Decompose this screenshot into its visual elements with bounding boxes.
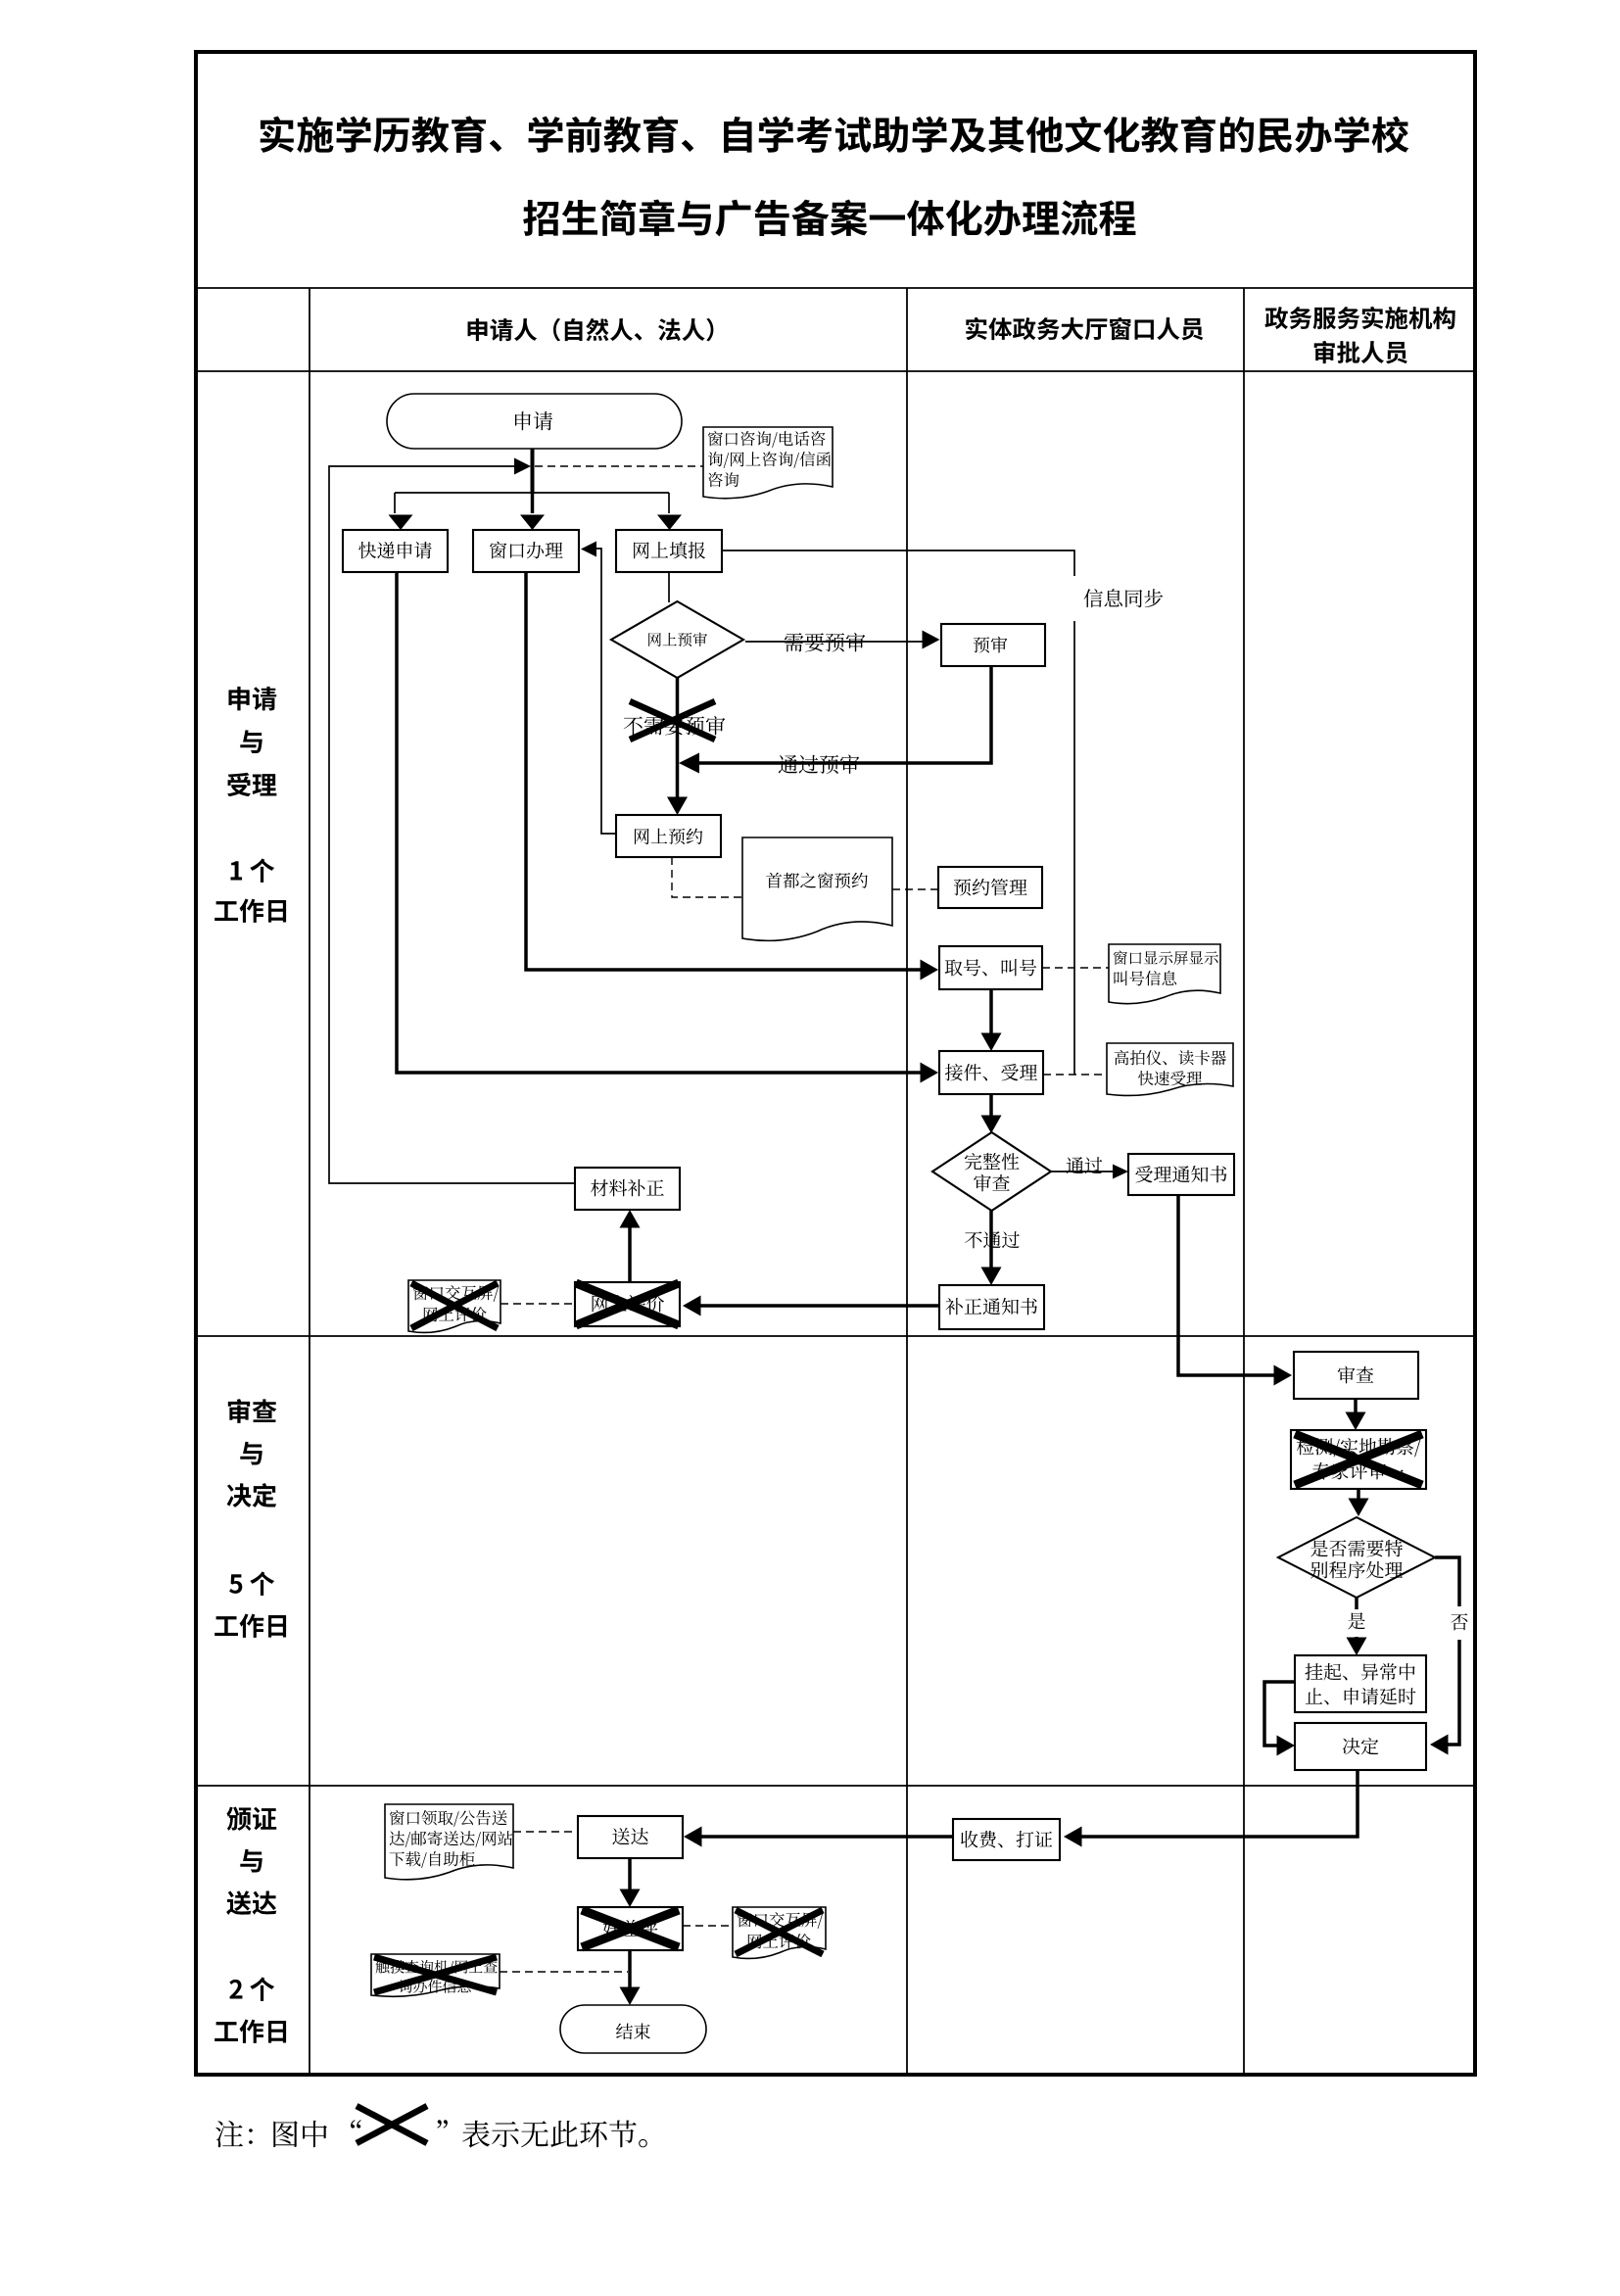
diamond label	[648, 633, 707, 646]
dashed doc to 预约管理	[892, 888, 938, 890]
arrowhead into 收费打证	[1064, 1827, 1082, 1847]
xbox label l1	[1297, 1438, 1421, 1457]
arrowhead into diamond	[981, 1116, 1002, 1134]
arrowhead into 补正通知书	[981, 1268, 1002, 1286]
wire 取号 to 接件	[989, 989, 993, 1035]
wire 收费 to 送达	[698, 1835, 953, 1839]
row1 label 1 个	[230, 858, 274, 882]
row3 label 颁证	[227, 1807, 277, 1831]
label 否	[1451, 1613, 1467, 1630]
row1 label 申请	[228, 687, 276, 710]
arrowhead into 材料补正	[620, 1210, 641, 1228]
arrowhead into 取号叫号	[921, 960, 939, 981]
wire 窗口办理 to 取号叫号	[526, 572, 925, 970]
note text l1	[1114, 951, 1218, 965]
row2 label 审查	[228, 1399, 277, 1423]
note text l2	[424, 1307, 487, 1321]
arrow into 网上填报	[657, 515, 682, 531]
note doc 窗口领取	[385, 1804, 513, 1880]
xbox label l2	[1312, 1462, 1403, 1480]
start stadium 申请	[387, 394, 682, 449]
arrowhead into 审查	[1274, 1365, 1293, 1386]
label 需要预审	[785, 633, 865, 652]
X mark note2	[736, 1910, 823, 1954]
note text l2	[748, 1934, 811, 1948]
header col3 line2	[1314, 341, 1407, 364]
label 不需要预审	[624, 716, 726, 736]
footer quote close	[437, 2120, 448, 2128]
X mark 网上评价	[576, 1283, 679, 1325]
wire 接件 to diamond	[989, 1094, 993, 1118]
wire 挂起 loop	[1264, 1682, 1295, 1746]
arrowhead 通过预审	[679, 753, 699, 774]
box label	[961, 1831, 1052, 1847]
xbox 检测实地勘察	[1291, 1430, 1426, 1489]
diamond 完整性审查	[932, 1132, 1051, 1211]
dashed 触摸查询 note	[500, 1971, 628, 1973]
title line 2	[523, 200, 1135, 237]
box label l2	[1306, 1688, 1416, 1704]
note text l2	[390, 1831, 513, 1847]
header col3 line1	[1264, 307, 1454, 329]
diamond label l1	[1310, 1540, 1403, 1556]
arrowhead into 接件	[981, 1033, 1002, 1052]
column line 2-3	[1243, 288, 1245, 2075]
note text l2	[708, 452, 831, 468]
wire 网上预约 to 窗口办理	[594, 549, 616, 834]
note doc 窗口交互屏1	[408, 1280, 500, 1332]
diamond label l2	[974, 1174, 1009, 1192]
diamond label l1	[965, 1153, 1020, 1170]
xbox label	[593, 1295, 664, 1312]
wire split horizontal	[395, 492, 669, 494]
arrowhead loop into 决定	[1277, 1736, 1296, 1756]
dashed 取号叫号 to note	[1042, 967, 1109, 969]
X mark no-step	[630, 701, 715, 740]
note doc 高拍仪	[1107, 1043, 1233, 1095]
note doc 触摸查询机	[371, 1954, 500, 1996]
wire 否 upper	[1435, 1557, 1459, 1606]
outer border frame	[196, 52, 1475, 2075]
box label	[945, 959, 1037, 976]
row2 label 工作日	[214, 1614, 286, 1638]
note text l1	[738, 1912, 823, 1929]
wire stem right	[668, 493, 670, 513]
box 取号叫号	[939, 946, 1042, 989]
X mark 检测	[1295, 1434, 1422, 1485]
box label	[490, 542, 563, 559]
wire 检测 down	[1357, 1489, 1360, 1501]
wire 审查 down	[1354, 1399, 1358, 1414]
wire 好差评 to 结束	[628, 1950, 632, 1989]
box 送达	[578, 1816, 683, 1858]
wire 信息同步	[722, 550, 1074, 576]
footer X symbol	[357, 2106, 427, 2143]
row3 label 工作日	[214, 2020, 286, 2043]
wire 通过预审	[697, 666, 991, 763]
label 信息同步	[1084, 589, 1164, 607]
dashed 网上预约 to doc	[672, 857, 742, 897]
header col2	[966, 317, 1203, 341]
end label	[616, 2023, 650, 2039]
note doc 窗口显示屏	[1109, 944, 1220, 1004]
wire 受理通知书 to 审查	[1178, 1195, 1277, 1375]
box label	[635, 829, 702, 845]
arrowhead into 接件受理	[921, 1063, 939, 1083]
note doc 窗口交互屏2	[733, 1907, 826, 1958]
X mark note1	[411, 1283, 498, 1328]
box 审查	[1294, 1352, 1418, 1399]
note text l1	[390, 1810, 507, 1827]
box 网上填报	[616, 530, 722, 572]
box label	[358, 542, 431, 558]
box 补正通知书	[939, 1285, 1044, 1329]
dashed note to 送达	[513, 1831, 578, 1833]
column line label	[309, 288, 310, 2075]
footer text part1b	[273, 2121, 327, 2148]
X mark 好差评	[582, 1910, 679, 1947]
box 预审	[941, 624, 1045, 666]
label 是	[1348, 1612, 1365, 1629]
box 受理通知书	[1128, 1154, 1234, 1195]
box label	[945, 1298, 1036, 1315]
box 网上预约	[616, 815, 721, 857]
box label	[612, 1828, 647, 1844]
dashed note to 网上评价	[500, 1303, 575, 1305]
X mark note3	[374, 1957, 497, 1992]
wire return from 材料补正	[329, 466, 575, 1183]
box 收费打证	[953, 1819, 1060, 1860]
wire 申请 down	[531, 449, 535, 494]
header bottom line	[196, 370, 1475, 372]
doc label	[766, 873, 868, 888]
arrowhead 否 into 决定	[1430, 1735, 1449, 1755]
diamond label l2	[1310, 1561, 1403, 1579]
row3 label 送达	[226, 1890, 276, 1915]
arrowhead into 网上预约	[667, 797, 688, 816]
end stadium 结束	[560, 2005, 706, 2053]
table top line	[196, 287, 1475, 289]
arrowhead into 挂起	[1347, 1638, 1367, 1656]
box label	[974, 637, 1008, 653]
box label	[1338, 1366, 1373, 1384]
wire 否 lower	[1446, 1640, 1459, 1745]
row3 label 2 个	[229, 1977, 274, 2000]
box 接件受理	[939, 1051, 1043, 1094]
box label	[591, 1179, 664, 1196]
arrowhead into 检测	[1346, 1412, 1366, 1431]
box label l1	[1305, 1663, 1414, 1680]
wire 补正 to 网上评价	[697, 1304, 939, 1308]
start label	[515, 411, 552, 430]
diamond 网上预审	[611, 601, 743, 678]
note doc 窗口咨询	[703, 427, 833, 499]
wire stem mid	[531, 493, 535, 513]
xbox label	[602, 1920, 657, 1937]
note text l1	[1115, 1050, 1226, 1065]
box 材料补正	[575, 1168, 680, 1210]
arrowhead into main line	[514, 458, 531, 475]
label 通过预审	[779, 754, 860, 774]
wire 不通过 down	[989, 1210, 993, 1269]
arrowhead into 窗口办理	[581, 542, 596, 557]
note text l3	[390, 1851, 475, 1868]
note text l1	[413, 1285, 499, 1302]
note text l1	[376, 1960, 498, 1975]
arrowhead into 结束	[620, 1987, 641, 2006]
box 快递申请	[343, 530, 448, 572]
row3 label 与	[240, 1849, 262, 1873]
note text l1	[708, 431, 826, 448]
row2 label 决定	[227, 1483, 277, 1507]
column line 1-2	[906, 288, 908, 2075]
wire 是 lower	[1355, 1637, 1358, 1641]
arrow into 窗口办理	[520, 515, 545, 531]
note text l2	[1114, 971, 1176, 985]
row2 label 5 个	[229, 1571, 274, 1595]
box label	[954, 879, 1027, 896]
dashed 接件 to note	[1043, 1074, 1107, 1076]
wire 评价 to 材料补正	[628, 1225, 632, 1282]
wire 送达 down	[628, 1858, 632, 1891]
wire 不需要预审 down	[676, 678, 680, 798]
label 不通过	[965, 1231, 1020, 1248]
wire 网上填报 to diamond	[668, 572, 670, 602]
arrowhead into 送达	[684, 1827, 702, 1847]
box 预约管理	[938, 867, 1042, 908]
box label	[634, 542, 705, 558]
box 挂起异常中止	[1295, 1655, 1426, 1712]
arrowhead into 好差评	[620, 1889, 641, 1908]
dashed to consult note	[535, 465, 703, 467]
dashed 好差评 to note	[683, 1925, 733, 1927]
title line 1	[261, 116, 1409, 153]
footer quote open	[351, 2120, 361, 2128]
row divider 2	[196, 1785, 1475, 1787]
wire 快递申请 to 接件受理	[397, 572, 925, 1073]
box label	[945, 1064, 1037, 1081]
box label	[1343, 1738, 1378, 1754]
row1 label 工作日	[214, 899, 286, 923]
arrowhead into diamond3	[1349, 1499, 1369, 1517]
footer text part2	[462, 2121, 647, 2148]
note text l2	[1138, 1071, 1202, 1085]
header col1	[468, 318, 714, 342]
footer text part1	[215, 2121, 253, 2147]
wire 决定 to 收费打证	[1079, 1770, 1358, 1837]
row1 label 受理	[227, 773, 276, 796]
wire 是 upper	[1355, 1598, 1358, 1609]
box 窗口办理	[473, 530, 579, 572]
note text l3	[708, 472, 739, 487]
box 决定	[1295, 1723, 1426, 1770]
label 通过	[1067, 1157, 1103, 1173]
note text l2	[399, 1980, 470, 1993]
row2 label 与	[240, 1442, 262, 1465]
arrowhead into 受理通知书	[1113, 1165, 1128, 1179]
wire 信息同步 lower	[1073, 621, 1075, 1075]
xbox 网上评价	[575, 1282, 680, 1326]
row divider 1	[196, 1335, 1475, 1337]
arrowhead into 预审	[923, 631, 940, 649]
xbox 好差评	[578, 1907, 683, 1950]
arrowhead into 网上评价	[683, 1296, 701, 1316]
arrow into 快递申请	[389, 515, 413, 531]
doc 首都之窗预约	[742, 837, 892, 940]
box label	[1135, 1166, 1226, 1182]
wire 需要预审	[745, 641, 926, 643]
diamond 是否需要特别程序处理	[1278, 1517, 1435, 1598]
wire 通过	[1051, 1171, 1115, 1172]
wire stem left	[394, 493, 396, 513]
row1 label 与	[240, 730, 262, 753]
